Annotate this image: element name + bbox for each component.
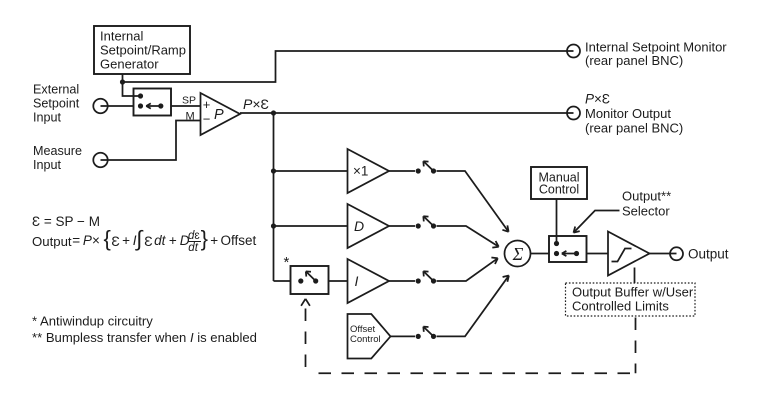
setpoint switch wiper arrow <box>146 103 161 108</box>
wire x1 to switch <box>389 170 415 172</box>
wire row3 switch to summer <box>437 258 498 282</box>
switch output selector box <box>549 236 587 262</box>
terminal PxE Monitor Output BNC <box>567 107 580 120</box>
label bumpless note <box>32 330 257 345</box>
terminal Output <box>670 247 683 260</box>
wire summer to output selector <box>531 253 550 255</box>
wire measure input to op-amp minus input <box>101 121 201 161</box>
node junction on generator wire <box>120 79 125 84</box>
label op-amp plus <box>203 97 211 112</box>
node bus junction row2 <box>271 223 276 228</box>
switch row3 <box>416 271 437 283</box>
wire op-amp output to monitor output <box>240 112 574 114</box>
label P x epsilon Monitor Output <box>585 92 683 136</box>
label x1 <box>353 163 368 178</box>
wire bus to antiwindup switch <box>274 280 291 282</box>
label I <box>355 273 359 289</box>
wire to Internal Setpoint Monitor <box>123 51 574 82</box>
node setpoint switch right contact <box>158 103 163 108</box>
terminal External Setpoint Input <box>93 99 107 113</box>
amplifier I integrator <box>348 259 390 303</box>
wire D to switch <box>389 225 415 227</box>
label error equation <box>32 214 100 229</box>
label P x epsilon node <box>243 96 269 112</box>
wire generator to SP switch <box>123 74 141 96</box>
wire antiwindup to I amplifier <box>329 280 348 282</box>
wire row4 switch to summer <box>437 276 509 337</box>
switch antiwindup contacts <box>298 271 318 283</box>
wire dashed feedback from buffer to antiwindup <box>306 309 636 374</box>
block Offset Control <box>348 314 391 359</box>
amplifier D derivative <box>348 204 390 248</box>
label antiwindup note <box>32 314 153 329</box>
switch setpoint selector box <box>134 89 172 116</box>
label SP <box>182 95 196 107</box>
label sigma <box>512 244 524 264</box>
label op-amp minus <box>203 111 211 126</box>
wire switch to op-amp plus input <box>171 105 201 107</box>
amplifier x1 <box>348 149 390 193</box>
label M <box>186 111 195 123</box>
block Output Buffer w/User Controlled Limits dotted <box>566 283 696 316</box>
node main bus junction <box>271 110 276 115</box>
switch row1 <box>416 161 437 173</box>
label Internal Setpoint/Ramp Generator <box>100 29 186 72</box>
pointer output selector label arrow <box>574 211 620 233</box>
op-amp P error amplifier <box>201 93 241 135</box>
switch row4 <box>416 327 437 339</box>
terminal Internal Setpoint Monitor BNC <box>567 45 580 58</box>
node bus junction row1 <box>271 168 276 173</box>
switch output selector contacts <box>554 241 579 256</box>
wire row2 switch to summer <box>437 226 499 248</box>
label Output Buffer w/User Controlled Limits <box>572 285 694 314</box>
label asterisk antiwindup <box>284 254 290 271</box>
op-amp output buffer limiter <box>608 232 650 276</box>
node setpoint switch left contact <box>138 103 143 108</box>
label op-amp P <box>214 107 224 123</box>
wire selector to output buffer <box>587 253 609 255</box>
wire I to switch <box>389 280 415 282</box>
label Measure Input <box>33 144 82 172</box>
wire buffer to output terminal <box>650 253 677 255</box>
pointer dashed arrowhead to antiwindup <box>301 299 310 306</box>
label External Setpoint Input <box>33 83 80 125</box>
pointer buffer label line <box>634 268 636 284</box>
wire bus to x1 amplifier <box>274 170 348 172</box>
block Internal Setpoint/Ramp Generator <box>94 26 190 74</box>
label Manual Control <box>539 171 580 197</box>
wire row1 switch to summer <box>437 171 509 232</box>
switch antiwindup box <box>291 266 329 294</box>
block Manual Control <box>531 167 587 199</box>
wire vertical distribution bus <box>273 113 275 281</box>
summer sigma circle <box>505 241 531 267</box>
label Internal Setpoint Monitor <box>585 39 727 68</box>
label Offset Control <box>350 324 381 345</box>
switch row2 <box>416 216 437 228</box>
node setpoint switch top contact <box>138 93 143 98</box>
terminal Measure Input <box>93 153 107 167</box>
wire offset control to switch <box>391 335 416 337</box>
wire manual control to selector <box>556 199 558 244</box>
wire external setpoint to switch <box>101 105 134 107</box>
label Output Selector <box>622 189 671 219</box>
wire bus to D amplifier <box>274 225 348 227</box>
label Output terminal <box>688 247 729 262</box>
label D <box>354 218 364 234</box>
